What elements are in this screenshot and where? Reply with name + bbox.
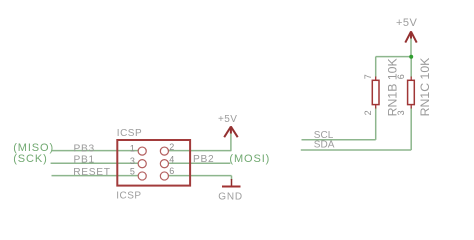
svg-text:RN1B 10K: RN1B 10K [385,58,399,117]
svg-text:+5V: +5V [396,17,418,29]
svg-text:7: 7 [363,74,373,79]
svg-text:PB1: PB1 [74,154,95,165]
svg-text:2: 2 [169,142,174,152]
svg-text:4: 4 [169,154,174,164]
svg-text:(MISO): (MISO) [13,142,54,154]
svg-text:6: 6 [396,74,406,79]
svg-text:(SCK): (SCK) [13,153,47,165]
svg-text:1: 1 [130,143,135,153]
svg-text:6: 6 [169,166,174,176]
svg-text:3: 3 [130,156,135,166]
svg-text:RN1C 10K: RN1C 10K [418,57,432,117]
svg-text:(MOSI): (MOSI) [229,153,270,165]
svg-text:ICSP: ICSP [117,128,142,139]
svg-text:SDA: SDA [314,140,335,151]
svg-text:RESET: RESET [73,167,110,178]
svg-text:GND: GND [218,191,243,202]
svg-text:PB3: PB3 [74,143,95,154]
svg-text:ICSP: ICSP [116,190,141,201]
svg-text:2: 2 [363,110,373,115]
svg-text:3: 3 [396,110,406,115]
svg-text:5: 5 [130,166,135,176]
svg-text:+5V: +5V [218,114,237,125]
svg-text:PB2: PB2 [193,154,214,165]
